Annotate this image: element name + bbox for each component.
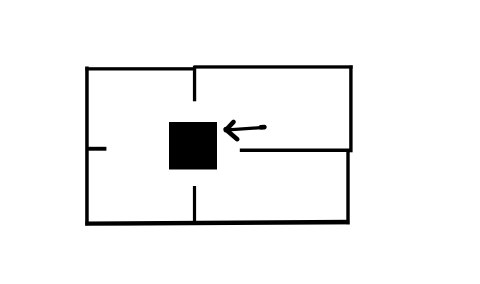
black square	[169, 122, 217, 170]
wall top-right segment	[194, 65, 353, 68]
wall mid horizontal	[240, 149, 352, 153]
arrow head upper barb	[226, 122, 234, 130]
arrow shaft end blob	[261, 125, 265, 130]
interior wall top vertical	[193, 66, 196, 101]
wall right edge upper	[349, 65, 352, 152]
wall left edge	[85, 67, 89, 226]
wall bottom edge	[85, 220, 349, 226]
interior wall bottom vertical	[193, 186, 196, 223]
interior wall left stub	[87, 147, 106, 151]
wall top-left segment	[85, 67, 196, 70]
arrow head lower barb	[226, 129, 238, 139]
arrow shaft	[226, 128, 262, 130]
wall right edge lower	[346, 151, 349, 225]
